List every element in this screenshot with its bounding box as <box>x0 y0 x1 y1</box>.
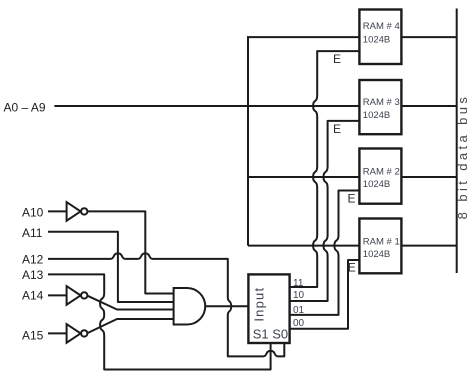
svg-text:RAM # 3: RAM # 3 <box>363 97 400 108</box>
svg-text:1024B: 1024B <box>363 179 390 190</box>
svg-text:01: 01 <box>293 305 305 316</box>
svg-text:00: 00 <box>293 318 305 329</box>
svg-text:8 bit data bus: 8 bit data bus <box>455 94 470 220</box>
svg-text:1024B: 1024B <box>363 110 390 121</box>
svg-text:E: E <box>347 191 355 205</box>
svg-text:S1 S0: S1 S0 <box>253 327 288 342</box>
svg-text:A13: A13 <box>22 268 44 282</box>
svg-text:A0 – A9: A0 – A9 <box>4 100 46 114</box>
svg-text:RAM # 2: RAM # 2 <box>363 166 400 177</box>
svg-text:A15: A15 <box>22 329 44 343</box>
svg-text:10: 10 <box>293 290 305 301</box>
svg-text:A14: A14 <box>22 289 44 303</box>
svg-text:A12: A12 <box>22 252 44 266</box>
svg-text:A11: A11 <box>22 226 43 240</box>
svg-text:1024B: 1024B <box>363 249 390 260</box>
svg-text:11: 11 <box>293 278 304 289</box>
svg-text:E: E <box>348 260 356 274</box>
svg-text:A10: A10 <box>22 206 44 220</box>
svg-text:1024B: 1024B <box>363 34 390 45</box>
svg-text:E: E <box>333 52 341 66</box>
svg-text:E: E <box>333 122 341 136</box>
svg-text:RAM # 1: RAM # 1 <box>363 236 400 247</box>
svg-text:RAM # 4: RAM # 4 <box>363 21 400 32</box>
svg-text:Input: Input <box>251 287 266 322</box>
